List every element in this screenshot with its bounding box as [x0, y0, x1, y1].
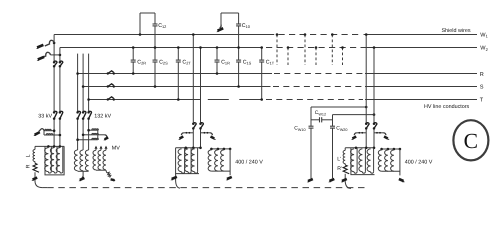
winding T2 secondary at x=217.9: [215, 150, 218, 171]
wire T2 secondary bus: [210, 148, 231, 151]
capacitor C1T: [259, 48, 264, 100]
wire phase R solid right: [365, 73, 477, 75]
wire 132kV feeder S: [82, 54, 84, 150]
label L: [25, 154, 31, 157]
capacitor C2S: [153, 48, 158, 87]
arrester lead row 1 (132kV): [87, 129, 98, 132]
svg-text:W1: W1: [480, 32, 488, 38]
tower downlead from W2 #2: [315, 46, 318, 65]
figure label circle C: [453, 120, 488, 160]
node C2R bottom: [132, 72, 135, 75]
winding T2 primary at x=194.6: [191, 149, 195, 172]
switch on 132kV feeder S: [82, 111, 86, 120]
wire phase T dashed span: [266, 99, 363, 101]
ground arrow 132kV neutral: [79, 176, 85, 181]
svg-text:R': R': [337, 166, 342, 172]
label R: [25, 164, 31, 168]
svg-text:400 / 240 V: 400 / 240 V: [235, 160, 263, 166]
wire shield W2 solid left: [60, 47, 263, 49]
label L': [337, 156, 341, 162]
wire shield W1 solid left: [54, 34, 268, 36]
svg-text:T: T: [480, 98, 484, 104]
arrester common lead (132kV): [97, 129, 99, 140]
tower downlead from W2 #3: [341, 46, 344, 65]
winding T1 primary at x=54.1: [50, 148, 54, 172]
wire phase T long dash a: [208, 99, 229, 101]
label W2: [480, 46, 488, 52]
surge arrester arrow A1: [36, 40, 55, 49]
wire T3 primary bracket: [351, 148, 375, 175]
svg-text:MV: MV: [112, 145, 120, 151]
wire T3 secondary bus: [380, 148, 401, 151]
label C12: [158, 23, 166, 29]
node C1T bottom: [260, 98, 263, 101]
wire T2 neutral: [229, 149, 231, 175]
label C2R: [137, 59, 146, 65]
winding T2 primary at x=188.1: [185, 149, 189, 172]
svg-text:C2S: C2S: [159, 59, 168, 65]
label R': [337, 166, 342, 172]
svg-text:33 kV: 33 kV: [38, 114, 52, 120]
wire CW line B: [333, 113, 376, 116]
MV lead arrow at x=101: [100, 146, 103, 151]
node C2T top on W2: [177, 46, 180, 49]
wire phase R dashed span: [274, 73, 363, 75]
switch on feeder A lower: [53, 111, 57, 120]
arrester lead row 2 (132kV): [82, 133, 99, 136]
wire T3 primary bus: [345, 147, 375, 150]
wire 132kV winding bottoms: [78, 170, 89, 172]
svg-text:C: C: [464, 129, 478, 153]
svg-text:C2T: C2T: [182, 59, 191, 65]
ground arrow CW10: [307, 179, 313, 182]
inductor L earthing: [33, 146, 35, 161]
node 132kV tap T: [87, 98, 90, 101]
wire T2 earth lead: [176, 174, 180, 189]
svg-text:S: S: [480, 85, 484, 91]
node 132kV tap S: [82, 85, 85, 88]
winding T3 primary return at x=373.6: [371, 148, 374, 173]
label CW20: [336, 126, 347, 132]
switch on feeder B lower: [59, 111, 63, 120]
winding T1 primary at x=59.9: [56, 148, 60, 172]
label R: [480, 72, 484, 78]
node C1R bottom: [216, 72, 219, 75]
wire phase T solid right: [365, 99, 477, 101]
winding 132kV at x=88.6: [85, 150, 88, 171]
wire T1 earth lead: [35, 172, 43, 187]
capacitor C2R: [131, 48, 136, 74]
switch on feeder A upper: [53, 61, 57, 68]
winding 132kV at x=77.6: [74, 150, 77, 171]
switch on line R: [107, 71, 115, 75]
label 33 kV: [38, 114, 52, 120]
tower downlead from W1 #2: [304, 33, 307, 65]
winding T1 primary at x=48.4: [45, 148, 49, 172]
node C12 on W1: [139, 33, 142, 36]
ground arrow T1 earthing: [31, 178, 37, 181]
svg-text:C12: C12: [158, 23, 166, 29]
inductor L' earthing: [343, 148, 345, 164]
winding T2 primary return at x=184.6: [182, 148, 185, 173]
ground arrow T3 secondary: [399, 179, 405, 182]
capacitor C12: [153, 13, 158, 48]
wire T2 primary bus: [176, 147, 202, 150]
svg-text:W2: W2: [480, 46, 488, 52]
tower downlead from W2 #1: [287, 46, 290, 65]
winding 132kV at x=83.1: [80, 150, 83, 171]
winding T2 secondary at x=211.4: [208, 150, 211, 171]
winding T3 secondary at x=387.9: [385, 150, 388, 171]
winding T3 secondary at x=393.9: [391, 150, 394, 171]
wire 33kV feeder A (from W1): [53, 35, 55, 147]
winding T2 primary at x=181.6: [178, 149, 182, 172]
svg-text:400 / 240 V: 400 / 240 V: [405, 160, 433, 166]
MV lead arrow at x=106: [105, 146, 108, 151]
winding T3 primary return at x=365.4: [362, 148, 365, 173]
capacitor C10: [236, 13, 241, 48]
arrester common lead (33kV): [43, 131, 45, 135]
label CW12: [315, 110, 326, 116]
resistor R earthing: [33, 162, 39, 173]
switch on 132kV feeder R: [76, 111, 80, 120]
node C2R top on W2: [132, 46, 135, 49]
capacitor CW20: [330, 115, 335, 179]
wire shield W2 solid right: [361, 47, 477, 49]
wire T2 feeder from W2: [199, 46, 202, 148]
surge arrester arrow A2: [37, 52, 62, 61]
resistor R' earthing: [343, 164, 349, 174]
surge arrester T3 right: [374, 132, 390, 140]
arrester lead row 3 (132kV): [76, 138, 98, 141]
svg-text:HV line conductors: HV line conductors: [424, 104, 470, 110]
capacitor C10 top wire: [221, 13, 239, 25]
tower downlead from W1 #1: [276, 33, 279, 65]
wire shield W1 solid right: [364, 34, 478, 36]
svg-text:C1R: C1R: [221, 59, 230, 65]
surge arrester T2 right: [201, 132, 217, 140]
wire T1 outer bracket: [45, 146, 64, 175]
wire T3 earth lead: [345, 174, 351, 189]
capacitor CW10: [309, 107, 314, 178]
ground arrow MV earthing: [111, 179, 116, 181]
svg-text:C1S: C1S: [243, 59, 252, 65]
label C10: [242, 23, 251, 29]
wire phase T solid left: [89, 99, 201, 101]
wire T3 feeder from W1: [365, 33, 368, 148]
label T: [480, 98, 484, 104]
winding T2 primary return at x=197.6: [195, 148, 198, 173]
label Shield wires: [442, 28, 471, 34]
winding T1 return at x=57.0: [54, 146, 57, 173]
wire MV winding bottoms: [96, 169, 106, 171]
wire T2 secondary bottoms: [211, 170, 230, 172]
arrester lead row 1 (33kV): [44, 129, 55, 132]
label C1R: [221, 59, 230, 65]
switch on feeder B upper: [59, 61, 63, 68]
winding MV at x=106: [103, 150, 106, 170]
label HV line conductors: [424, 104, 470, 110]
winding T3 primary at x=354.1: [351, 149, 355, 172]
wire T2 feeder from W1: [192, 33, 195, 148]
node 132kV tap R: [76, 72, 79, 75]
svg-text:Shield wires: Shield wires: [442, 28, 471, 34]
winding T3 primary return at x=357.1: [354, 148, 357, 173]
wire phase S dashed span: [273, 86, 363, 88]
switch on 132kV feeder T: [87, 111, 91, 120]
label CW10: [294, 126, 305, 132]
node C2S bottom: [154, 85, 157, 88]
wire T3 neutral: [399, 149, 401, 175]
winding T1 return at x=62.8: [60, 146, 63, 173]
node C2S top on W2: [154, 46, 157, 49]
label 132 kV: [94, 114, 111, 120]
wire shield W2 dashed span: [266, 47, 361, 49]
node C1R top on W2: [216, 46, 219, 49]
label 400/240 V right: [405, 160, 433, 166]
winding T2 secondary at x=223.9: [221, 150, 224, 171]
capacitor CW12: [311, 117, 333, 122]
wire phase S solid left: [83, 86, 270, 88]
switch T3 feeder 1: [365, 123, 369, 130]
capacitor C12 left arm wire: [140, 13, 155, 35]
label MV: [112, 145, 120, 151]
node C1S top on W2: [237, 46, 240, 49]
tower downlead from W1 #3: [331, 33, 334, 65]
wire phase T long dash b: [239, 99, 261, 101]
switch T2 feeder 2: [199, 123, 203, 130]
wire earth dashed line: [43, 187, 366, 189]
ground arrow T2 secondary: [226, 177, 232, 180]
winding T2 primary return at x=191.1: [188, 148, 191, 173]
ground arrow T3 earthing: [341, 179, 347, 182]
wire T1 top bus: [35, 145, 64, 148]
surge arrester T3 left: [351, 132, 366, 140]
svg-text:C2R: C2R: [137, 59, 146, 65]
label S: [480, 85, 484, 91]
svg-text:L': L': [337, 156, 341, 162]
svg-text:L: L: [25, 154, 31, 157]
capacitor C1R: [215, 48, 220, 74]
wire 132kV neutral drop: [82, 171, 84, 176]
MV lead arrow at x=96: [95, 146, 98, 151]
capacitor C1S: [236, 48, 241, 87]
ground arrow 33kV arrester: [33, 129, 44, 136]
arrester lead row 2 (33kV): [44, 134, 61, 137]
winding T3 secondary at x=381.6: [378, 150, 381, 171]
node C2T bottom: [177, 98, 180, 101]
winding MV at x=101: [98, 150, 101, 170]
label C1S: [243, 59, 252, 65]
wire 132kV feeder R: [77, 54, 79, 150]
svg-text:R: R: [25, 164, 31, 168]
winding T1 return at x=51.3: [48, 146, 51, 173]
winding MV at x=96: [93, 150, 96, 170]
node C1T top on W2: [260, 46, 263, 49]
svg-text:C1T: C1T: [266, 59, 275, 65]
wire phase S solid right: [365, 86, 477, 88]
winding T3 primary at x=370.6: [367, 149, 371, 172]
label C2T: [182, 59, 191, 65]
resistor MV earthing zigzag: [106, 170, 111, 177]
label C1T: [266, 59, 275, 65]
label W1: [480, 32, 488, 38]
ground arrow T2 primary: [171, 177, 177, 180]
switch on line T: [107, 97, 115, 101]
node C1S bottom: [237, 85, 240, 88]
ground arrow CW20: [328, 179, 334, 182]
ground arrow 132kV arrester: [98, 135, 108, 141]
wire CW line A: [311, 106, 368, 109]
svg-text:R: R: [480, 72, 484, 78]
wire T3 secondary bottoms: [382, 170, 400, 172]
ground arrow of C10: [216, 25, 223, 33]
label C2S: [159, 59, 168, 65]
wire 132kV feeder T: [88, 54, 90, 150]
wire T2 primary bracket: [176, 148, 199, 174]
switch T2 feeder 1: [192, 123, 196, 130]
svg-text:132 kV: 132 kV: [94, 114, 111, 120]
label 400/240 V middle: [235, 160, 263, 166]
winding T3 primary at x=362.4: [359, 149, 363, 172]
wire 33kV feeder B (from W2): [59, 48, 61, 147]
wire T3 feeder from W2: [373, 46, 376, 148]
capacitor C2T: [176, 48, 181, 100]
switch on line S: [107, 84, 115, 88]
switch T3 feeder 2: [373, 123, 377, 130]
svg-text:C10: C10: [242, 23, 251, 29]
surge arrester T2 left: [178, 132, 193, 140]
wire shield W1 dashed span: [268, 34, 362, 36]
wire phase R solid left: [78, 73, 272, 75]
